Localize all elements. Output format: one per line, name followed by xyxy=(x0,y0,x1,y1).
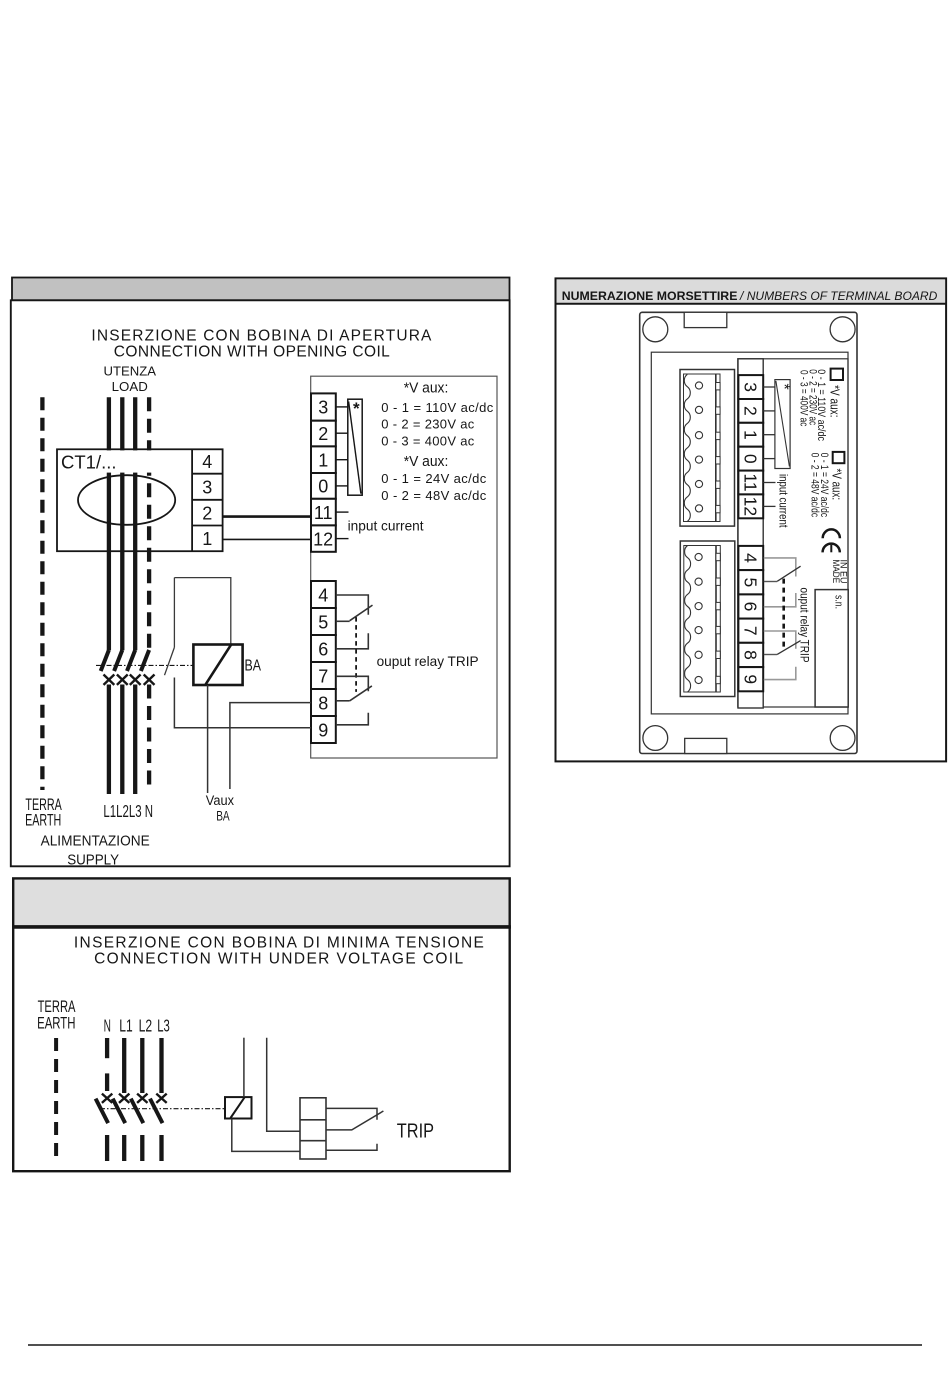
svg-text:0 - 2 = 230V ac: 0 - 2 = 230V ac xyxy=(381,417,475,432)
terminal 11 xyxy=(311,499,336,526)
svg-text:IN EU: IN EU xyxy=(838,560,849,584)
wire into coil top xyxy=(243,1038,245,1097)
svg-text:11: 11 xyxy=(314,503,333,523)
tick terminal 11 xyxy=(336,511,349,513)
svg-text:ouput relay TRIP: ouput relay TRIP xyxy=(377,654,479,669)
selector box right xyxy=(775,380,790,469)
terminal 12 xyxy=(311,525,336,551)
connector lower slots xyxy=(716,553,720,683)
svg-text:6: 6 xyxy=(318,640,328,660)
strip cell 9 xyxy=(738,667,763,691)
terminal 5 xyxy=(311,608,336,635)
relay wire 5 xyxy=(764,581,777,583)
tick terminal 3 xyxy=(336,406,348,408)
relay wire 8 xyxy=(764,654,777,656)
strip cell 5 xyxy=(738,570,763,594)
svg-text:9: 9 xyxy=(740,674,760,684)
board outline xyxy=(640,312,857,753)
strip cell 7 xyxy=(738,619,763,643)
wire aux to terminal 9 xyxy=(174,678,311,728)
terminal 9 xyxy=(311,716,336,743)
svg-text:*: * xyxy=(775,384,792,390)
connector upper xyxy=(680,370,735,527)
wire BA bottom to Vaux xyxy=(207,685,209,793)
svg-text:INSERZIONE CON BOBINA DI APERT: INSERZIONE CON BOBINA DI APERTURA xyxy=(91,328,432,345)
earth line box2 xyxy=(54,1038,58,1159)
UV coil diagonal xyxy=(231,1098,245,1118)
svg-text:2: 2 xyxy=(202,504,212,524)
voltage selector box xyxy=(348,399,362,495)
svg-text:6: 6 xyxy=(740,602,760,612)
connector lower circles xyxy=(695,553,702,683)
outer box right xyxy=(556,278,947,761)
svg-text:0 - 3 = 400V ac: 0 - 3 = 400V ac xyxy=(797,370,809,427)
svg-text:NUMERAZIONE MORSETTIRE: NUMERAZIONE MORSETTIRE xyxy=(562,289,738,303)
tick terminal 2 xyxy=(336,432,348,434)
wire CT pin2 to terminal 11 xyxy=(223,515,311,518)
svg-text:*V aux:: *V aux: xyxy=(404,454,449,470)
svg-text:0 - 2 = 48V ac/dc: 0 - 2 = 48V ac/dc xyxy=(381,488,487,503)
svg-text:UTENZA: UTENZA xyxy=(104,364,157,379)
aux contact wire top xyxy=(173,578,175,648)
svg-text:ALIMENTAZIONE: ALIMENTAZIONE xyxy=(41,834,150,850)
title bar box2 xyxy=(13,878,510,927)
svg-text:5: 5 xyxy=(740,577,760,587)
svg-text:3: 3 xyxy=(318,398,328,418)
svg-text:4: 4 xyxy=(740,553,760,563)
BA coil diagonal xyxy=(206,645,231,685)
breaker blade L3 xyxy=(127,650,135,671)
svg-text:2: 2 xyxy=(318,424,328,444)
terminal 8 xyxy=(311,689,336,716)
svg-text:BA: BA xyxy=(216,808,230,824)
terminal 1 xyxy=(311,446,336,473)
terminal 4 xyxy=(311,581,336,608)
inner rect xyxy=(651,352,848,714)
line L1 upper xyxy=(107,397,111,650)
contact blade 8-7 xyxy=(350,686,372,701)
svg-text:EARTH: EARTH xyxy=(25,812,61,830)
svg-text:4: 4 xyxy=(202,452,212,472)
line L3 upper xyxy=(133,397,137,650)
svg-text:LOAD: LOAD xyxy=(112,379,148,394)
wire terminal 6 fixed contact xyxy=(336,633,369,649)
wire loop above BA xyxy=(174,578,230,645)
CT1 cell dividers xyxy=(192,474,223,526)
svg-text:CT1/...: CT1/... xyxy=(61,452,117,473)
breaker blade N xyxy=(141,650,149,671)
svg-text:8: 8 xyxy=(740,650,760,660)
BA coil box xyxy=(193,645,242,686)
svg-text:input current: input current xyxy=(777,474,791,528)
title bar right xyxy=(557,279,946,302)
svg-text:0: 0 xyxy=(740,454,760,464)
wire CT pin1 to terminal 12 xyxy=(223,538,311,540)
svg-text:EARTH: EARTH xyxy=(37,1015,75,1033)
label container xyxy=(738,359,848,707)
hole bottom right xyxy=(830,726,855,751)
strip cell 1 xyxy=(738,423,763,447)
strip cell 12 xyxy=(738,494,763,518)
top tab xyxy=(684,312,727,327)
svg-text:0 - 2 = 48V ac/dc: 0 - 2 = 48V ac/dc xyxy=(808,453,820,518)
connector upper slots xyxy=(716,383,720,513)
svg-text:3: 3 xyxy=(202,478,212,498)
wire terminal 9 fixed contact xyxy=(336,713,369,725)
hole bottom left xyxy=(643,726,668,751)
svg-text:L1: L1 xyxy=(119,1015,132,1035)
tick terminal 12 xyxy=(336,538,349,540)
svg-text:12: 12 xyxy=(313,529,333,549)
svg-text:s.n.: s.n. xyxy=(833,595,845,609)
line L1 lower xyxy=(107,685,111,795)
svg-text:4: 4 xyxy=(318,586,328,606)
footer line xyxy=(28,1344,922,1346)
relay dashed link xyxy=(782,579,785,649)
X mark N xyxy=(144,675,155,685)
svg-text:7: 7 xyxy=(740,626,760,636)
dash-dot link box2 xyxy=(100,1108,225,1110)
svg-text:3: 3 xyxy=(740,382,760,392)
line N box2 xyxy=(105,1038,109,1058)
strip cell 6 xyxy=(738,594,763,618)
svg-text:INSERZIONE CON BOBINA DI MINIM: INSERZIONE CON BOBINA DI MINIMA TENSIONE xyxy=(74,935,484,952)
strip cell 0 xyxy=(738,447,763,471)
X mark L3 xyxy=(130,675,141,685)
trip contact blade xyxy=(326,1111,383,1130)
trip contact bottom xyxy=(326,1144,377,1150)
svg-text:input current: input current xyxy=(348,518,424,534)
svg-text:2: 2 xyxy=(740,406,760,416)
line L2 box2 xyxy=(140,1038,144,1093)
earth line box1 xyxy=(40,397,44,790)
strip cell 8 xyxy=(738,643,763,667)
CT1 ellipse xyxy=(78,475,175,525)
ticks cells 3,2,1,0 xyxy=(763,387,775,506)
svg-text:*V aux:: *V aux: xyxy=(830,469,844,501)
terminal 0 xyxy=(311,473,336,499)
connector upper circles xyxy=(695,382,702,512)
terminal 6 xyxy=(311,635,336,662)
bar divider box2 xyxy=(12,925,511,929)
svg-text:L3: L3 xyxy=(157,1015,170,1035)
wire terminal 5 xyxy=(336,620,350,622)
CE mark xyxy=(823,529,840,552)
svg-text:0 - 1 = 24V ac/dc: 0 - 1 = 24V ac/dc xyxy=(381,471,487,486)
svg-text:/ NUMBERS OF TERMINAL BOARD: / NUMBERS OF TERMINAL BOARD xyxy=(739,289,937,303)
wire coil to trip block xyxy=(232,1119,300,1152)
svg-text:TRIP: TRIP xyxy=(397,1120,434,1143)
relay wire 6 xyxy=(764,593,796,607)
svg-text:12: 12 xyxy=(740,497,760,516)
bottom tab xyxy=(685,738,727,753)
X marks box2 xyxy=(102,1094,167,1103)
selector diagonal xyxy=(349,402,361,494)
wire terminal 8 xyxy=(336,700,350,702)
X mark L1 xyxy=(104,675,115,685)
s.n. box xyxy=(815,590,848,707)
svg-text:0 - 3 = 400V ac: 0 - 3 = 400V ac xyxy=(381,433,475,448)
relay blade 5-4 xyxy=(777,566,800,581)
svg-text:0: 0 xyxy=(318,477,328,497)
relay blade 8-7 xyxy=(777,641,800,655)
svg-text:11: 11 xyxy=(740,473,760,491)
trip contact top xyxy=(326,1108,377,1119)
breaker blade L2 xyxy=(114,650,122,671)
svg-text:9: 9 xyxy=(318,721,328,741)
svg-text:*: * xyxy=(353,399,360,418)
lower segments box2 xyxy=(105,1135,109,1161)
hole top left xyxy=(643,317,668,342)
svg-text:8: 8 xyxy=(318,694,328,714)
panel box2 xyxy=(13,927,510,1171)
strip cell 2 xyxy=(738,399,763,423)
TRIP block xyxy=(300,1098,326,1159)
svg-text:TERRA: TERRA xyxy=(38,998,76,1016)
selector diagonal right xyxy=(776,381,790,466)
title bar box1 xyxy=(12,278,510,301)
line L1 box2 xyxy=(122,1038,126,1093)
CT1 terminal divider xyxy=(191,449,193,551)
CT1 transformer box xyxy=(57,449,223,551)
svg-text:1: 1 xyxy=(202,529,212,549)
line L3 lower xyxy=(133,685,137,795)
wire terminal 7 fixed contact xyxy=(336,676,369,691)
svg-text:N: N xyxy=(104,1015,111,1035)
checkbox 1 xyxy=(831,369,843,380)
svg-text:CONNECTION WITH OPENING COIL: CONNECTION WITH OPENING COIL xyxy=(114,343,390,360)
svg-text:1: 1 xyxy=(318,451,328,471)
relay wire 4 xyxy=(764,558,796,577)
tick terminal 0 xyxy=(336,485,348,487)
mechanical link dashed xyxy=(355,617,357,692)
svg-text:1: 1 xyxy=(740,430,760,440)
svg-text:L1L2L3 N: L1L2L3 N xyxy=(103,801,153,821)
terminal strip outline xyxy=(738,359,763,708)
svg-text:L2: L2 xyxy=(139,1015,153,1035)
svg-text:*V aux:: *V aux: xyxy=(404,381,449,397)
breaker blades box2 xyxy=(96,1099,109,1124)
UV coil box xyxy=(225,1097,252,1118)
line N lower dashed xyxy=(147,685,151,792)
svg-text:CONNECTION WITH UNDER VOLTAGE: CONNECTION WITH UNDER VOLTAGE COIL xyxy=(94,951,463,968)
svg-text:7: 7 xyxy=(318,667,328,687)
line L2 upper xyxy=(120,397,124,650)
tick terminal 1 xyxy=(336,459,348,461)
CT1 label band xyxy=(58,450,191,472)
connector lower xyxy=(680,541,735,697)
strip cell 4 xyxy=(738,546,763,570)
line L3 box2 xyxy=(159,1038,163,1093)
line L2 lower xyxy=(120,685,124,795)
terminal 2 xyxy=(311,421,336,447)
relay wire 9 xyxy=(764,667,796,680)
wire 2 to trip block xyxy=(267,1038,300,1132)
dash-dot mechanical link to BA xyxy=(96,664,193,666)
svg-text:SUPPLY: SUPPLY xyxy=(67,852,119,868)
line N upper dashed xyxy=(147,397,151,650)
panel box1 xyxy=(11,300,510,866)
svg-text:0 - 1 = 110V ac/dc: 0 - 1 = 110V ac/dc xyxy=(381,400,494,415)
relay wire 7 xyxy=(764,631,796,649)
terminal 7 xyxy=(311,662,336,689)
svg-text:5: 5 xyxy=(318,613,328,633)
hole top right xyxy=(830,317,855,342)
svg-text:Vaux: Vaux xyxy=(206,793,234,808)
wire terminal 4 fixed contact xyxy=(336,595,369,615)
terminal container box xyxy=(311,376,497,758)
strip cell 11 xyxy=(738,471,763,495)
contact blade 5-4 xyxy=(350,605,373,621)
breaker blade L1 xyxy=(101,650,109,671)
svg-text:*V aux:: *V aux: xyxy=(828,385,842,417)
checkbox 2 xyxy=(833,452,845,463)
svg-text:ouput relay TRIP: ouput relay TRIP xyxy=(798,588,812,663)
X mark L2 xyxy=(117,675,128,685)
terminal 3 xyxy=(311,393,336,420)
aux contact blade xyxy=(165,647,175,675)
wire terminal 8 to BA label xyxy=(230,703,311,789)
svg-text:BA: BA xyxy=(245,658,262,675)
strip cell 3 xyxy=(738,375,763,399)
